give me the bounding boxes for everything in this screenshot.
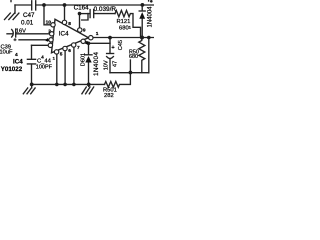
svg-text:+: + xyxy=(13,37,17,43)
svg-text:1N4004: 1N4004 xyxy=(93,52,100,76)
svg-text:680: 680 xyxy=(119,25,129,31)
svg-text:C_44: C_44 xyxy=(37,58,52,64)
svg-text:1: 1 xyxy=(53,55,56,60)
svg-text:C164: C164 xyxy=(74,5,90,12)
svg-text:5: 5 xyxy=(60,52,63,58)
svg-text:6: 6 xyxy=(68,48,71,54)
svg-text:3: 3 xyxy=(85,40,88,46)
svg-text:D601: D601 xyxy=(81,53,87,66)
svg-text:10: 10 xyxy=(46,19,52,25)
svg-text:282: 282 xyxy=(104,93,114,99)
svg-text:8: 8 xyxy=(68,21,71,27)
svg-text:IC4: IC4 xyxy=(13,58,23,65)
svg-text:1: 1 xyxy=(129,24,132,29)
svg-text:C47: C47 xyxy=(23,12,35,19)
svg-text:47: 47 xyxy=(112,61,118,67)
svg-text:2: 2 xyxy=(48,29,51,35)
svg-text:10uF: 10uF xyxy=(0,49,13,55)
svg-text:IC4: IC4 xyxy=(59,30,69,37)
svg-text:10V: 10V xyxy=(103,60,109,70)
svg-text:0.01: 0.01 xyxy=(21,19,34,26)
svg-text:+: + xyxy=(111,45,115,51)
svg-text:7: 7 xyxy=(77,45,80,51)
svg-text:1: 1 xyxy=(96,31,99,37)
svg-text:4: 4 xyxy=(15,52,18,58)
svg-text:1N4004: 1N4004 xyxy=(148,6,154,28)
svg-text:Y01022: Y01022 xyxy=(1,66,23,73)
svg-text:100PF: 100PF xyxy=(36,65,53,71)
svg-text:16V: 16V xyxy=(16,29,26,35)
svg-text:C45: C45 xyxy=(118,40,124,50)
svg-text:680: 680 xyxy=(129,54,138,60)
svg-text:0.039/R: 0.039/R xyxy=(94,6,117,13)
svg-text:4: 4 xyxy=(46,38,49,44)
svg-text:9: 9 xyxy=(83,27,86,33)
